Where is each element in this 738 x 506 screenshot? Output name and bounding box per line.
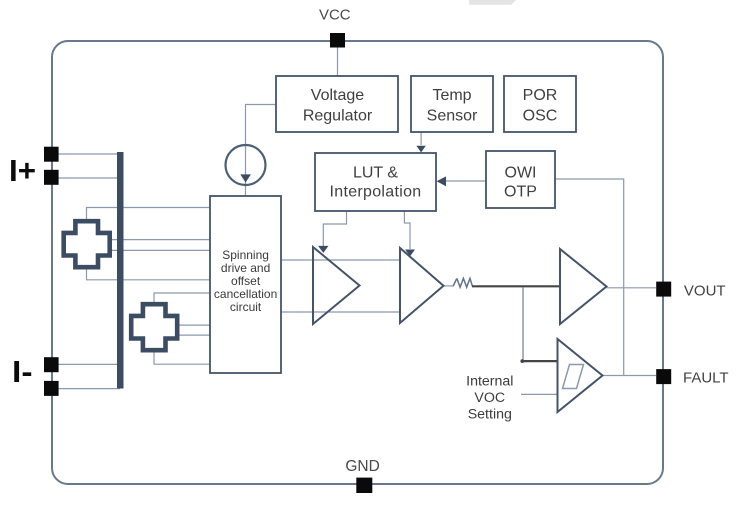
svg-text:I+: I+ [9, 153, 36, 188]
svg-text:VOC: VOC [474, 390, 505, 406]
svg-text:GND: GND [345, 458, 379, 475]
svg-text:LUT &: LUT & [353, 165, 398, 182]
svg-text:drive and: drive and [221, 261, 270, 275]
svg-text:OSC: OSC [523, 108, 558, 125]
svg-text:Temp: Temp [432, 87, 471, 104]
svg-text:Sensor: Sensor [427, 108, 478, 125]
svg-text:OTP: OTP [504, 184, 537, 201]
svg-text:Interpolation: Interpolation [330, 184, 422, 201]
svg-text:Setting: Setting [468, 407, 512, 423]
svg-text:VOUT: VOUT [684, 282, 726, 299]
svg-text:I-: I- [12, 354, 33, 389]
svg-text:OWI: OWI [505, 165, 537, 182]
svg-text:Internal: Internal [466, 374, 513, 390]
svg-text:POR: POR [523, 87, 558, 104]
svg-text:Voltage: Voltage [311, 87, 364, 104]
svg-text:Spinning: Spinning [222, 248, 269, 262]
svg-text:offset: offset [231, 274, 261, 288]
svg-text:circuit: circuit [230, 300, 262, 314]
svg-text:FAULT: FAULT [683, 370, 729, 387]
svg-text:cancellation: cancellation [214, 287, 277, 301]
svg-text:VCC: VCC [319, 7, 351, 24]
svg-text:Regulator: Regulator [303, 108, 373, 125]
